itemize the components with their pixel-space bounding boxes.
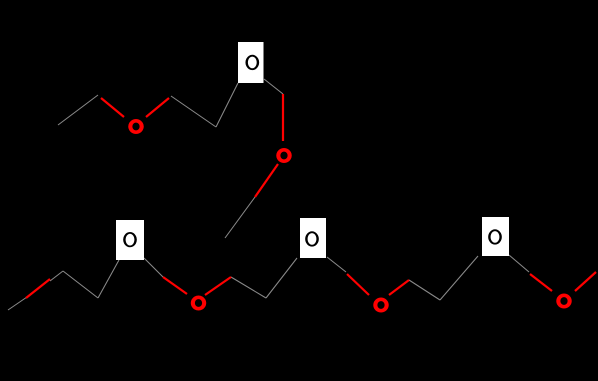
wire bond C apex to C bottom — [63, 271, 98, 298]
atom label O8 red ring — [556, 294, 572, 309]
wire bond CH2 to terminal C — [225, 197, 255, 238]
wire bond C2 to boxed O2 — [216, 83, 238, 127]
wire bond stub above red R1 — [50, 271, 63, 281]
wire bond C bottom to boxed O9 — [440, 256, 478, 300]
red bond O6 to C right — [389, 280, 409, 295]
wire bond boxed O9 to C — [509, 255, 529, 272]
atom label O2 black ring — [245, 55, 259, 70]
atom label O9 black ring — [488, 229, 502, 244]
red bond O3 to CH2 — [255, 164, 278, 197]
atom label O6 red ring — [373, 298, 389, 313]
red bond O1 to C right — [146, 98, 169, 117]
wire bond C bottom to boxed O7 — [266, 258, 297, 298]
red bond C to O4 left — [163, 277, 187, 294]
wire bond boxed O2 to C — [264, 79, 283, 94]
atom label O4 red ring — [191, 296, 207, 311]
wire bond C-C after O1 — [171, 96, 216, 127]
wire bond C bottom to boxed O5 — [98, 260, 119, 298]
white box of atom O7 — [300, 218, 326, 258]
atom label O3 red ring — [276, 148, 292, 163]
white box of atom O2 — [238, 42, 264, 83]
atom label O7 black ring — [305, 231, 319, 246]
wire bond CH3-CH2 top-left — [58, 95, 98, 125]
atom label O1 red ring — [128, 119, 143, 134]
wire bond terminal bottom-left — [8, 297, 27, 310]
wire bond boxed O5 to C — [144, 258, 163, 277]
wire bond boxed O7 to C — [327, 257, 346, 272]
wire bond C to C bottom mid — [231, 277, 266, 298]
red bond O4 to C right — [205, 277, 231, 295]
red bond O8 to C right terminal — [575, 272, 596, 291]
white box of atom O5 — [116, 220, 144, 260]
white box of atom O9 — [482, 217, 509, 256]
red bond C to O6 left — [347, 274, 369, 295]
red bond R1 bottom-left — [26, 279, 50, 298]
red bond C to O8 left — [530, 274, 552, 291]
wire bond C to C bottom right — [409, 280, 440, 300]
red bond C to O3 vertical — [282, 94, 284, 141]
atom label O5 black ring — [123, 232, 137, 247]
red bond C to O1 left — [101, 98, 124, 117]
